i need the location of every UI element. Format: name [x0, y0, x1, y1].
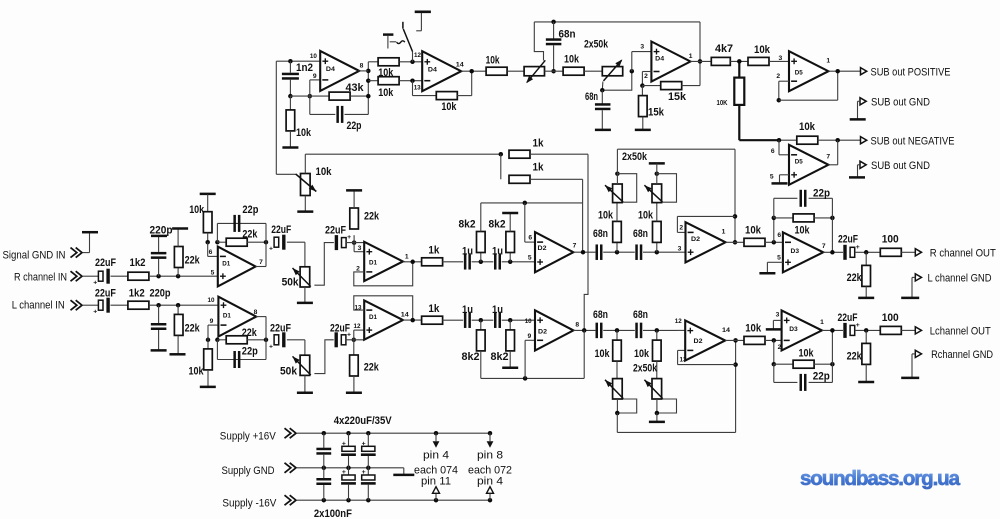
svg-text:SUB out POSITIVE: SUB out POSITIVE	[871, 67, 951, 79]
svg-text:+: +	[342, 440, 346, 447]
svg-text:10k: 10k	[296, 127, 312, 139]
svg-text:22k: 22k	[847, 351, 863, 363]
svg-text:2x100nF: 2x100nF	[314, 508, 352, 519]
svg-text:22p: 22p	[347, 120, 362, 132]
svg-text:6: 6	[777, 232, 781, 239]
svg-text:R channel OUT: R channel OUT	[930, 247, 996, 259]
svg-text:13: 13	[355, 305, 362, 312]
svg-text:R channel IN: R channel IN	[14, 272, 67, 284]
svg-text:soundbass.org.ua: soundbass.org.ua	[800, 467, 961, 490]
svg-text:pin 8: pin 8	[477, 450, 503, 462]
svg-text:22k: 22k	[847, 272, 863, 284]
svg-text:Lchannel OUT: Lchannel OUT	[930, 325, 991, 337]
svg-text:D1: D1	[369, 314, 377, 321]
svg-text:10k: 10k	[799, 121, 816, 133]
svg-text:Signal GND IN: Signal GND IN	[3, 250, 66, 262]
svg-text:SUB out NEGATIVE: SUB out NEGATIVE	[871, 136, 955, 148]
svg-text:2: 2	[356, 265, 360, 272]
svg-text:10k: 10k	[638, 210, 654, 222]
svg-text:Rchannel GND: Rchannel GND	[931, 349, 993, 361]
svg-text:13: 13	[680, 357, 687, 364]
svg-text:22p: 22p	[813, 188, 830, 200]
svg-text:15k: 15k	[648, 107, 665, 119]
svg-text:43k: 43k	[346, 82, 365, 94]
svg-text:1u: 1u	[492, 304, 503, 316]
svg-text:10k: 10k	[595, 348, 611, 360]
svg-text:6: 6	[771, 148, 775, 155]
svg-text:22k: 22k	[242, 229, 258, 241]
svg-text:7: 7	[573, 242, 577, 249]
svg-text:D2: D2	[691, 236, 700, 243]
svg-text:D3: D3	[791, 248, 800, 255]
svg-text:1: 1	[722, 229, 726, 236]
svg-text:10K: 10K	[717, 98, 729, 107]
svg-text:9: 9	[313, 73, 317, 80]
svg-text:10k: 10k	[378, 87, 394, 99]
svg-text:10k: 10k	[189, 366, 205, 378]
svg-text:13: 13	[414, 84, 421, 91]
svg-text:68n: 68n	[585, 91, 598, 103]
svg-text:1: 1	[405, 254, 409, 261]
svg-text:5: 5	[770, 173, 774, 180]
svg-text:10: 10	[310, 53, 317, 60]
svg-text:1u: 1u	[462, 304, 473, 316]
svg-text:9: 9	[210, 318, 214, 325]
svg-text:22uF: 22uF	[838, 234, 858, 246]
svg-text:D4: D4	[655, 55, 664, 62]
svg-text:22uF: 22uF	[95, 288, 116, 300]
svg-text:10k: 10k	[745, 323, 762, 335]
svg-text:D3: D3	[789, 326, 798, 333]
svg-text:12: 12	[675, 318, 682, 325]
svg-text:+: +	[362, 469, 366, 476]
svg-text:8: 8	[254, 309, 258, 316]
svg-text:D5: D5	[795, 159, 804, 166]
svg-text:8: 8	[575, 321, 579, 328]
svg-text:6: 6	[528, 235, 532, 242]
svg-text:22k: 22k	[185, 255, 201, 267]
svg-text:7: 7	[259, 259, 263, 266]
svg-text:L channel IN: L channel IN	[12, 299, 65, 311]
svg-text:8k2: 8k2	[491, 351, 509, 363]
svg-text:2: 2	[776, 73, 780, 80]
svg-text:+: +	[347, 234, 351, 241]
svg-text:10k: 10k	[486, 55, 500, 67]
svg-text:10k: 10k	[598, 210, 614, 222]
svg-text:68n: 68n	[633, 228, 648, 240]
svg-text:+: +	[269, 343, 273, 350]
svg-text:3: 3	[640, 43, 644, 50]
svg-text:10k: 10k	[316, 166, 333, 178]
svg-text:8k2: 8k2	[462, 351, 480, 363]
svg-text:1k: 1k	[533, 138, 545, 150]
svg-text:1: 1	[689, 53, 693, 60]
svg-text:D1: D1	[222, 260, 230, 267]
svg-text:5: 5	[211, 270, 215, 277]
svg-text:14: 14	[456, 62, 464, 69]
svg-text:2: 2	[644, 73, 648, 80]
svg-text:22uF: 22uF	[838, 312, 858, 324]
svg-text:3: 3	[358, 245, 362, 252]
svg-text:SUB out GND: SUB out GND	[871, 160, 930, 172]
svg-text:7: 7	[822, 243, 826, 250]
svg-text:22k: 22k	[242, 327, 258, 339]
svg-text:50k: 50k	[282, 277, 300, 289]
svg-text:15k: 15k	[668, 91, 687, 103]
svg-text:220p: 220p	[150, 225, 173, 237]
svg-text:10k: 10k	[564, 54, 580, 66]
svg-text:22k: 22k	[364, 361, 380, 373]
svg-text:+: +	[362, 440, 366, 447]
svg-text:1k: 1k	[533, 162, 545, 174]
svg-text:10: 10	[525, 318, 532, 325]
svg-text:12: 12	[354, 323, 361, 330]
svg-text:2: 2	[778, 344, 782, 351]
svg-text:4k7: 4k7	[715, 43, 733, 55]
svg-text:1k2: 1k2	[130, 257, 146, 269]
svg-text:Supply -16V: Supply -16V	[222, 497, 277, 509]
svg-text:22uF: 22uF	[95, 257, 116, 269]
svg-text:D5: D5	[795, 69, 804, 76]
svg-text:pin 4: pin 4	[423, 450, 449, 462]
svg-text:8k2: 8k2	[489, 218, 506, 230]
svg-text:D2: D2	[538, 329, 547, 336]
svg-text:1: 1	[826, 57, 830, 64]
svg-text:10k: 10k	[799, 347, 815, 359]
svg-text:22k: 22k	[364, 211, 380, 223]
svg-text:22p: 22p	[242, 346, 258, 358]
svg-text:2x50k: 2x50k	[633, 363, 657, 375]
svg-text:1u: 1u	[462, 246, 473, 258]
svg-text:22p: 22p	[242, 204, 258, 216]
svg-text:SUB out GND: SUB out GND	[871, 97, 930, 109]
svg-text:Supply +16V: Supply +16V	[220, 430, 277, 442]
svg-text:14: 14	[722, 327, 730, 334]
svg-text:68n: 68n	[633, 309, 648, 321]
svg-text:68n: 68n	[559, 29, 576, 41]
svg-text:10k: 10k	[441, 101, 457, 113]
svg-text:1: 1	[820, 319, 824, 326]
svg-text:3: 3	[779, 55, 783, 62]
svg-text:+: +	[93, 280, 97, 287]
svg-text:2: 2	[679, 224, 683, 231]
svg-text:D4: D4	[326, 66, 335, 73]
svg-text:10k: 10k	[378, 67, 394, 79]
svg-text:22uF: 22uF	[325, 225, 346, 237]
svg-text:5: 5	[777, 255, 781, 262]
svg-text:100: 100	[882, 234, 899, 246]
svg-text:D1: D1	[369, 260, 377, 267]
svg-text:D4: D4	[428, 66, 437, 73]
svg-text:9: 9	[528, 333, 532, 340]
svg-text:10k: 10k	[754, 44, 771, 56]
svg-text:7: 7	[826, 153, 830, 160]
svg-text:3: 3	[678, 246, 682, 253]
svg-text:68n: 68n	[593, 228, 608, 240]
svg-text:4x220uF/35V: 4x220uF/35V	[334, 415, 392, 427]
svg-text:pin 4: pin 4	[477, 475, 503, 487]
svg-text:22uF: 22uF	[271, 224, 291, 236]
svg-text:14: 14	[401, 311, 409, 318]
svg-text:100: 100	[882, 312, 899, 324]
svg-text:1n2: 1n2	[296, 62, 313, 74]
svg-text:5: 5	[528, 254, 532, 261]
svg-text:1k: 1k	[428, 303, 440, 315]
svg-text:10k: 10k	[745, 225, 762, 237]
svg-text:8k2: 8k2	[459, 218, 476, 230]
svg-text:D1: D1	[223, 312, 231, 319]
svg-text:68n: 68n	[593, 309, 608, 321]
svg-text:1k2: 1k2	[129, 288, 145, 300]
svg-text:1u: 1u	[492, 246, 503, 258]
svg-text:+: +	[342, 469, 346, 476]
svg-text:2x50k: 2x50k	[622, 151, 648, 163]
svg-text:10k: 10k	[189, 204, 205, 216]
svg-text:pin 11: pin 11	[421, 475, 451, 487]
svg-text:10k: 10k	[795, 225, 811, 237]
svg-text:50k: 50k	[280, 366, 298, 378]
svg-text:10: 10	[208, 297, 215, 304]
svg-text:+: +	[269, 246, 273, 253]
svg-text:6: 6	[209, 249, 213, 256]
svg-text:D2: D2	[538, 245, 547, 252]
svg-text:L channel GND: L channel GND	[928, 273, 992, 285]
svg-text:10k: 10k	[634, 348, 650, 360]
svg-text:22k: 22k	[185, 323, 201, 335]
svg-text:220p: 220p	[150, 288, 171, 300]
svg-text:+: +	[93, 309, 97, 316]
svg-text:D2: D2	[694, 338, 703, 345]
svg-text:8: 8	[360, 62, 364, 69]
svg-text:22uF: 22uF	[270, 322, 291, 334]
svg-text:Supply GND: Supply GND	[222, 465, 275, 477]
svg-text:22uF: 22uF	[330, 322, 350, 334]
svg-text:1k: 1k	[428, 245, 440, 257]
svg-text:3: 3	[776, 312, 780, 319]
svg-text:12: 12	[414, 52, 421, 59]
svg-text:2x50k: 2x50k	[584, 39, 608, 51]
svg-text:22p: 22p	[813, 371, 830, 383]
